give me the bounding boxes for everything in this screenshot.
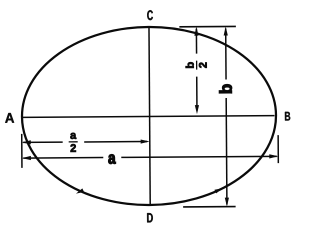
wire: bottom extension line for b dimension (183, 206, 235, 208)
arrowhead on curve lower-left (75, 188, 84, 195)
wire: top extension line for b dimensions (179, 25, 235, 27)
label a (bold) (108, 154, 115, 163)
node label A (5, 113, 14, 123)
label a/2 (fraction) (69, 133, 78, 152)
dimension line b/2 (vertical, x=197) (195, 29, 197, 54)
node label C (147, 10, 153, 20)
dimension line a/2 (horizontal, y=141.5) (23, 141, 62, 143)
dimension line a (horizontal, y=157.2) (23, 157, 103, 160)
wire: right extension line for a dimension (277, 135, 279, 163)
wire: vertical minor axis CD (149, 28, 150, 205)
wire: left extension line for a dimensions (21, 134, 23, 168)
ellipse outline (21, 26, 276, 206)
arrowhead on curve lower-right (215, 186, 224, 193)
label b (rotated bold) (219, 84, 232, 93)
node label D (147, 213, 153, 222)
node label B (285, 112, 290, 121)
wire: horizontal major axis AB (23, 116, 274, 118)
dimension line b (vertical, x=226.3) (225, 28, 227, 79)
label b/2 (rotated fraction) (186, 61, 207, 70)
